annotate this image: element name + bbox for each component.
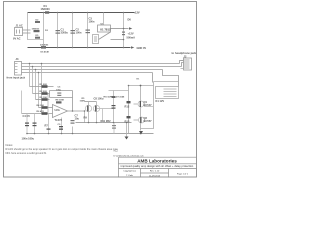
svg-text:9V AC: 9V AC [13,37,21,41]
svg-text:J1 AC: J1 AC [16,23,23,27]
svg-text:1N4003: 1N4003 [41,7,51,11]
svg-text:11-09-2013: 11-09-2013 [149,176,161,178]
svg-text:AMB Laboratories: AMB Laboratories [137,159,177,164]
svg-text:from input jack: from input jack [7,76,26,80]
svg-text:100n: 100n [76,31,82,35]
svg-text:R7: R7 [45,124,49,128]
svg-text:GND 0V: GND 0V [137,46,147,50]
svg-text:Page 1 of 1: Page 1 of 1 [177,174,189,176]
svg-text:improved quality amp design wi: improved quality amp design with dc offs… [121,164,194,168]
svg-text:500mA: 500mA [127,36,136,40]
svg-text:e12: e12 [114,149,119,153]
svg-text:BC557: BC557 [144,119,153,123]
svg-text:R1-R4 should go to the amp spe: R1-R4 should go to the amp speaker IC as… [6,147,119,151]
svg-text:100n: 100n [89,20,95,24]
svg-text:BC547: BC547 [144,103,153,107]
svg-text:R10 47R: R10 47R [104,95,113,98]
svg-text:Copyright (c): Copyright (c) [123,170,136,173]
svg-text:NF1 here ensures a solid groun: NF1 here ensures a solid ground fit. [6,151,48,155]
svg-text:to headphone jack: to headphone jack [172,51,197,55]
svg-text:100R: 100R [80,101,86,103]
svg-text:C8 100u: C8 100u [94,97,104,101]
svg-text:R1 22K: R1 22K [40,84,48,86]
svg-text:D:\amb\e12\e12-schematic.sch: D:\amb\e12\e12-schematic.sch [114,154,145,157]
svg-text:R8 100K: R8 100K [56,100,65,102]
svg-text:+12V: +12V [128,32,134,36]
svg-text:Notes:: Notes: [6,143,14,147]
svg-text:D4 4003: D4 4003 [40,43,49,46]
svg-text:100n 100u: 100n 100u [22,137,35,141]
svg-text:R12: R12 [125,105,130,109]
svg-text:Rev: 1.10: Rev: 1.10 [150,171,160,173]
svg-text:3300u: 3300u [61,31,69,35]
svg-text:TL072: TL072 [55,118,63,122]
svg-text:U1 7812: U1 7812 [100,27,111,31]
svg-text:D5 4148: D5 4148 [41,51,50,54]
svg-text:K1 12V: K1 12V [156,99,165,103]
svg-text:R11 2R2: R11 2R2 [101,119,112,123]
svg-text:T. Kmb: T. Kmb [126,175,134,177]
svg-text:100p: 100p [56,90,62,92]
svg-text:R2 22K: R2 22K [40,91,48,93]
svg-text:R6 47K: R6 47K [37,110,45,113]
svg-text:10u: 10u [75,117,80,121]
svg-text:R9: R9 [84,116,88,120]
svg-text:1N4003: 1N4003 [32,27,40,30]
svg-text:R4 10K: R4 10K [37,104,45,107]
svg-text:D6: D6 [128,18,132,22]
svg-text:U2A: U2A [55,108,60,112]
svg-text:R13: R13 [125,120,130,124]
svg-text:+12V: +12V [134,11,140,15]
svg-text:R3 10K: R3 10K [40,97,48,99]
svg-text:D7 4148: D7 4148 [116,95,125,98]
svg-text:C4 C5: C4 C5 [23,114,31,118]
